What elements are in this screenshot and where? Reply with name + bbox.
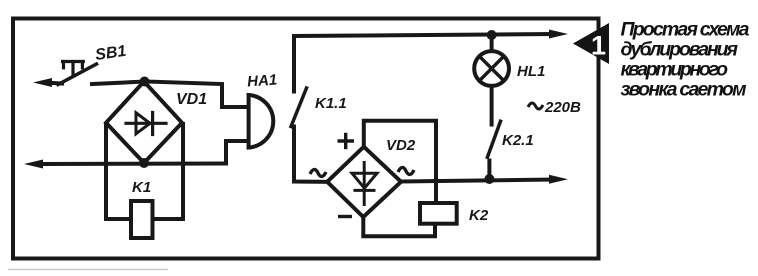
polarity + sign VD2 xyxy=(338,133,355,217)
svg-text:HL1: HL1 xyxy=(517,63,545,80)
AC tilde before 220V xyxy=(528,103,543,109)
wire: K1.1 bottom to VD2 left vertex xyxy=(294,127,327,182)
callout triangle 1 xyxy=(573,23,609,64)
lamp HL1 leads xyxy=(490,35,494,51)
switch SB1 actuator xyxy=(63,62,84,76)
node VD1 top xyxy=(140,77,150,87)
arrow: upper left off-page xyxy=(33,78,52,87)
diode VD1 internal symbol xyxy=(126,113,166,135)
wire: VD1 right vertex down to K1 xyxy=(153,124,183,219)
lamp HL1 xyxy=(474,51,509,86)
node K2.1 bottom xyxy=(484,174,494,184)
arrow: top right xyxy=(549,30,568,39)
svg-text:Простая схема: Простая схема xyxy=(621,18,750,40)
polarity - sign VD2 xyxy=(338,215,352,218)
svg-text:220В: 220В xyxy=(544,99,581,116)
diode bridge VD2 diamond xyxy=(327,147,401,217)
wire: K2.1 bottom terminal xyxy=(487,161,491,180)
svg-text:K2: K2 xyxy=(469,207,489,224)
wire: VD2 right vertex to right arrow xyxy=(401,180,552,182)
diode bridge VD1 diamond xyxy=(106,82,182,164)
svg-text:дублирования: дублирования xyxy=(621,38,739,60)
diode VD2 triangle xyxy=(352,173,377,188)
svg-text:VD1: VD1 xyxy=(176,91,207,108)
wire: VD1 top to HA1 xyxy=(146,82,247,108)
wire: right circuit top line xyxy=(294,34,552,92)
svg-text:VD2: VD2 xyxy=(386,137,416,154)
svg-text:звонка саетом: звонка саетом xyxy=(621,79,748,101)
wire: HA1 bottom to long bottom wire xyxy=(226,141,247,164)
svg-text:1: 1 xyxy=(591,31,606,61)
wire: VD1 left vertex down to K1 xyxy=(106,124,131,219)
relay coil K2 xyxy=(420,203,457,224)
faint scan line bottom xyxy=(8,269,168,271)
wire: long bottom wire with left arrow xyxy=(40,162,226,167)
contact K2.1 blade xyxy=(487,121,500,157)
caption text block xyxy=(621,18,750,100)
arrow: bottom right xyxy=(549,175,568,184)
relay coil K1 xyxy=(131,201,153,238)
switch SB1 blade xyxy=(58,64,97,85)
contact K1.1 blade xyxy=(291,88,307,127)
wire: VD2 bottom to relay K2 bottom xyxy=(363,217,435,236)
svg-text:K1.1: K1.1 xyxy=(315,95,347,112)
svg-text:SB1: SB1 xyxy=(94,43,127,64)
svg-text:K2.1: K2.1 xyxy=(502,132,534,149)
node VD1 bottom xyxy=(139,158,149,168)
border frame xyxy=(13,19,599,259)
AC tilde left VD2 xyxy=(310,169,326,176)
diode VD1 triangle xyxy=(136,113,150,134)
AC tilde right VD2 xyxy=(398,167,414,174)
svg-text:K1: K1 xyxy=(132,179,151,196)
arrowheads xyxy=(24,30,568,184)
wire: upper left off-page lead xyxy=(44,83,62,84)
svg-text:HA1: HA1 xyxy=(247,71,278,90)
wire: SB1 right terminal to VD1 top xyxy=(92,82,146,85)
arrow: lower left off-page xyxy=(24,160,43,169)
node HL1 top xyxy=(487,30,497,40)
diode VD2 internal symbol xyxy=(355,163,374,205)
svg-text:квартирного: квартирного xyxy=(621,59,729,81)
buzzer HA1 body xyxy=(247,95,251,148)
wire: VD2 top loop to relay K2 xyxy=(364,121,436,203)
